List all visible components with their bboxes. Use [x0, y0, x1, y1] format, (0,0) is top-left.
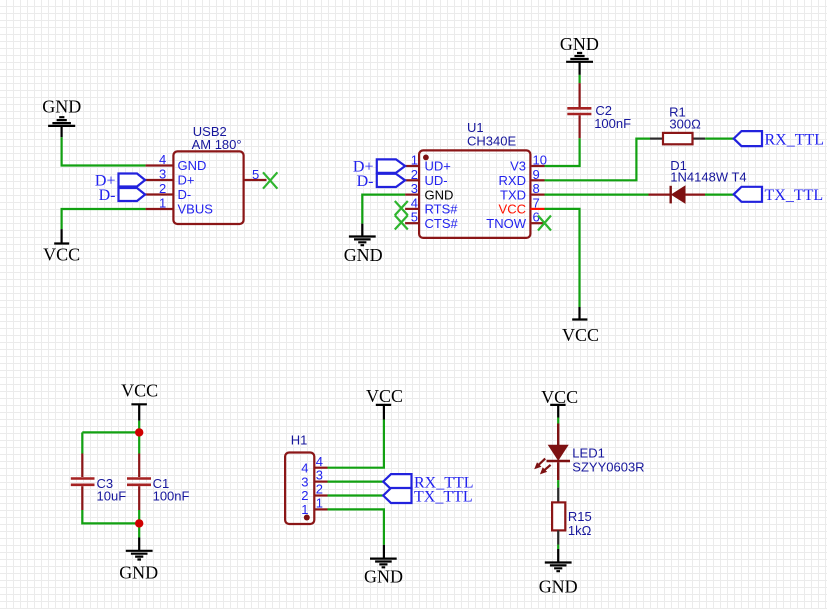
svg-text:LED1: LED1 — [572, 446, 605, 461]
svg-text:RTS#: RTS# — [425, 202, 459, 217]
U1 pin 10 V3 — [530, 165, 544, 167]
svg-text:GND: GND — [364, 567, 403, 587]
no-connect X on U1 pin 5 — [395, 215, 408, 229]
LED arrows — [539, 459, 546, 465]
capacitor C1 — [127, 454, 190, 511]
svg-text:GND: GND — [178, 158, 207, 173]
svg-text:VCC: VCC — [366, 386, 403, 406]
ground GND (USB2, inverted) — [42, 96, 81, 137]
capacitor C3 — [71, 454, 126, 511]
wire VCC to USB2 pin 1 — [62, 209, 146, 229]
svg-text:8: 8 — [533, 181, 540, 196]
svg-text:D-: D- — [99, 187, 116, 204]
USB2 pin 1 — [146, 208, 174, 210]
USB2 pin 3 — [145, 179, 173, 181]
wire GND to C2 — [578, 75, 580, 83]
svg-text:100nF: 100nF — [153, 489, 190, 504]
svg-text:3: 3 — [411, 181, 418, 196]
svg-text:2: 2 — [411, 167, 418, 182]
USB2 pin 2 — [145, 193, 173, 195]
svg-text:GND: GND — [425, 187, 454, 202]
wire R15 to GND — [557, 545, 559, 550]
svg-text:5: 5 — [411, 210, 418, 225]
connector USB2 — [173, 124, 243, 224]
wire left branch down — [81, 432, 83, 453]
svg-text:GND: GND — [42, 96, 81, 116]
power flag VCC (LED) — [541, 387, 578, 418]
svg-text:5: 5 — [252, 167, 259, 182]
svg-text:2: 2 — [301, 488, 308, 503]
svg-text:VCC: VCC — [121, 381, 158, 401]
svg-text:3: 3 — [316, 468, 323, 483]
H1 pin 4 — [314, 467, 327, 469]
U1 pin 7 VCC — [530, 208, 544, 210]
svg-text:2: 2 — [159, 181, 166, 196]
svg-text:TXD: TXD — [500, 187, 526, 202]
svg-text:1: 1 — [159, 196, 166, 211]
svg-text:RX_TTL: RX_TTL — [765, 131, 825, 148]
U1 pin 3 GND — [405, 194, 419, 196]
svg-text:3: 3 — [301, 474, 308, 489]
svg-text:9: 9 — [533, 167, 540, 182]
svg-text:VBUS: VBUS — [178, 202, 214, 217]
svg-text:7: 7 — [533, 195, 540, 210]
U1 pin 4 RTS# — [405, 208, 419, 210]
diode D1 — [649, 158, 747, 204]
wire U1 pin3 to GND — [362, 195, 405, 224]
netflag TX_TTL (top) — [734, 187, 823, 204]
svg-text:UD+: UD+ — [425, 159, 451, 174]
netflag D+ (U1 side) — [353, 159, 405, 176]
svg-text:300Ω: 300Ω — [669, 117, 701, 132]
USB2 pin 4 — [146, 164, 174, 166]
no-connect X on U1 pin 4 — [395, 201, 408, 215]
U1 pin 6 TNOW — [530, 222, 544, 224]
U1 pin 5 CTS# — [405, 222, 419, 224]
svg-text:1: 1 — [411, 153, 418, 168]
wire U1 pin7 to VCC — [545, 209, 580, 307]
svg-text:TNOW: TNOW — [486, 216, 526, 231]
netflag D+ (USB2 side) — [95, 173, 145, 190]
power flag VCC (caps) — [121, 381, 158, 421]
svg-text:V3: V3 — [510, 159, 526, 174]
netflag TX_TTL (H1) — [383, 488, 472, 506]
svg-text:GND: GND — [344, 245, 383, 265]
H1 pin 1 — [314, 508, 327, 510]
netflag D- (U1 side) — [357, 173, 405, 190]
svg-text:1: 1 — [316, 496, 323, 511]
wire H1 pin1 to GND — [328, 509, 384, 545]
svg-text:10uF: 10uF — [97, 489, 127, 504]
resistor R15 — [552, 488, 592, 545]
U1 pin 8 TXD — [530, 194, 544, 196]
svg-text:2: 2 — [316, 482, 323, 497]
svg-text:R15: R15 — [568, 509, 592, 524]
netflag RX_TTL (H1) — [383, 474, 473, 491]
svg-text:D+: D+ — [178, 173, 195, 188]
svg-text:4: 4 — [411, 195, 418, 210]
svg-text:1: 1 — [301, 502, 308, 517]
svg-text:H1: H1 — [291, 432, 308, 447]
junction (bottom) — [135, 519, 143, 527]
svg-text:1kΩ: 1kΩ — [568, 523, 592, 538]
wire bottom bus — [82, 510, 139, 538]
ground GND (H1) — [364, 545, 403, 587]
U1 pin 1 UD+ — [405, 165, 419, 167]
wire C2 to U1 pin 10 — [545, 138, 580, 166]
svg-text:4: 4 — [316, 454, 323, 469]
svg-text:CH340E: CH340E — [467, 134, 516, 149]
header H1 — [285, 432, 314, 524]
ground GND (C2, inverted) — [560, 34, 599, 75]
ground GND (U1 pin3) — [344, 224, 383, 266]
wire U1 pin9 to R1 — [545, 139, 651, 181]
svg-text:VCC: VCC — [43, 245, 80, 265]
H1 pin 2 — [314, 494, 327, 496]
svg-text:GND: GND — [560, 34, 599, 54]
USB2 pin 5 — [244, 179, 267, 181]
LED LED1 — [534, 424, 644, 481]
svg-text:VCC: VCC — [499, 202, 526, 217]
svg-text:1N4148W T4: 1N4148W T4 — [670, 170, 746, 185]
wire VCC to H1 pin4 — [328, 420, 384, 468]
wire D1 to TX_TTL — [705, 194, 734, 196]
svg-text:TX_TTL: TX_TTL — [414, 489, 473, 506]
netflag D- (USB2 side) — [99, 187, 145, 204]
svg-text:UD-: UD- — [425, 173, 448, 188]
svg-text:CTS#: CTS# — [425, 216, 459, 231]
wire VCC to caps — [82, 421, 139, 454]
capacitor C2 — [567, 83, 631, 138]
svg-text:GND: GND — [539, 577, 578, 597]
svg-text:4: 4 — [159, 152, 166, 167]
svg-text:3: 3 — [159, 167, 166, 182]
svg-text:AM 180°: AM 180° — [192, 137, 242, 152]
wire VCC to LED1 — [557, 418, 559, 424]
svg-text:D-: D- — [178, 187, 192, 202]
power flag VCC (H1) — [366, 386, 403, 420]
U1 pin 9 RXD — [530, 179, 544, 181]
power flag VCC (USB2) — [43, 229, 80, 264]
U1 pin 2 UD- — [405, 179, 419, 181]
svg-text:D-: D- — [357, 173, 374, 190]
svg-text:SZYY0603R: SZYY0603R — [572, 460, 644, 475]
wire U1 pin8 to D1 — [545, 194, 649, 196]
IC U1 body — [419, 120, 530, 238]
ground GND (caps) — [119, 538, 158, 583]
junction (top) — [135, 428, 143, 436]
svg-text:GND: GND — [119, 562, 158, 582]
no-connect X on USB2 pin 5 — [263, 172, 277, 188]
wire R1 to RX_TTL — [705, 138, 734, 140]
svg-text:TX_TTL: TX_TTL — [765, 187, 824, 204]
netflag RX_TTL (top) — [734, 131, 824, 148]
svg-text:RXD: RXD — [499, 173, 526, 188]
power flag VCC (U1 pin7) — [562, 307, 599, 345]
resistor R1 — [650, 104, 705, 144]
wire LED1 to R15 — [557, 480, 559, 488]
H1 pin 3 — [314, 481, 327, 483]
svg-text:100nF: 100nF — [594, 116, 631, 131]
ground GND (LED) — [539, 549, 578, 597]
wire H1 pin3 to RX_TTL — [328, 481, 384, 483]
wire H1 pin2 to TX_TTL — [328, 494, 384, 496]
no-connect X on U1 pin 6 — [538, 216, 551, 231]
svg-text:VCC: VCC — [562, 325, 599, 345]
svg-text:4: 4 — [301, 460, 308, 475]
wire GND to USB2 pin 4 — [62, 137, 146, 165]
